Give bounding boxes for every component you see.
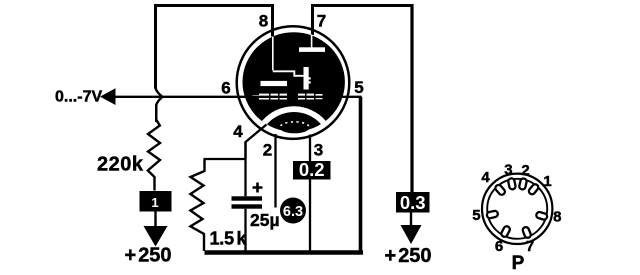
svg-text:2: 2 [521,162,529,179]
svg-text:0.2: 0.2 [299,159,325,180]
svg-text:6: 6 [221,79,230,98]
svg-text:8: 8 [259,12,268,31]
svg-text:8: 8 [553,209,561,226]
svg-text:1: 1 [151,195,158,210]
svg-text:0...-7V: 0...-7V [55,89,102,106]
svg-text:3: 3 [504,162,512,179]
svg-text:0.3: 0.3 [400,192,426,213]
svg-text:2: 2 [263,141,272,160]
svg-text:1: 1 [543,173,551,190]
svg-text:6: 6 [495,238,503,255]
svg-text:4: 4 [233,122,243,141]
svg-text:1.5k: 1.5k [210,229,248,249]
svg-text:P: P [512,253,525,274]
svg-text:220k: 220k [97,154,144,176]
svg-text:5: 5 [354,78,363,97]
svg-text:25µ: 25µ [250,210,280,230]
svg-text:+250: +250 [125,245,172,267]
svg-text:5: 5 [472,207,480,224]
svg-text:6.3: 6.3 [283,204,303,220]
svg-text:4: 4 [481,169,490,186]
svg-text:7: 7 [317,12,326,31]
svg-text:7: 7 [526,238,534,255]
svg-text:3: 3 [314,141,323,160]
svg-text:+250: +250 [385,245,432,267]
